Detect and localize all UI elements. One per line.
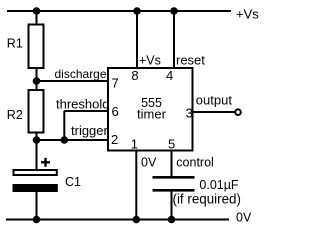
node junction bottom rail / C1 — [33, 216, 41, 224]
node junction top rail / pin 8 — [133, 7, 141, 15]
wire pin 4 to top rail — [173, 11, 175, 68]
svg-text:0V: 0V — [236, 210, 252, 224]
node discharge junction — [33, 77, 41, 85]
svg-text:C1: C1 — [65, 175, 81, 189]
capacitor C1 positive plate — [14, 170, 57, 175]
node junction bottom rail / pin 1 — [133, 216, 141, 224]
wire threshold branch vertical — [63, 111, 65, 140]
wire pin 5 to control capacitor — [171, 151, 173, 178]
op-amp / IC 555 timer U1 body — [108, 68, 193, 151]
capacitor C2 control bottom plate — [153, 189, 195, 192]
wire pin 8 to top rail — [136, 11, 138, 68]
svg-text:+Vs: +Vs — [139, 54, 161, 68]
wire trigger to pin 2 — [37, 139, 109, 141]
svg-text:R2: R2 — [7, 108, 23, 122]
node junction top rail / pin 4 — [170, 7, 178, 15]
resistor R2 — [29, 90, 44, 133]
svg-text:0.01µF: 0.01µF — [199, 178, 239, 192]
svg-text:timer: timer — [137, 106, 167, 121]
svg-text:4: 4 — [166, 68, 173, 83]
capacitor C2 control top plate — [153, 176, 195, 179]
wire discharge to pin 7 — [37, 80, 109, 82]
output terminal circle — [235, 109, 241, 115]
node trigger junction at R2 bottom — [33, 136, 41, 144]
svg-text:(if required): (if required) — [173, 192, 241, 207]
node junction bottom rail / control capacitor — [168, 216, 176, 224]
svg-text:2: 2 — [111, 132, 118, 147]
svg-text:5: 5 — [168, 136, 175, 151]
svg-text:threshold: threshold — [56, 97, 109, 112]
svg-text:R1: R1 — [7, 36, 23, 50]
node threshold branch junction — [61, 136, 69, 144]
svg-text:0V: 0V — [141, 156, 157, 170]
wire control capacitor to bottom rail — [171, 190, 173, 219]
svg-text:6: 6 — [112, 104, 119, 119]
svg-text:3: 3 — [186, 106, 193, 121]
svg-text:trigger: trigger — [71, 123, 109, 138]
wire 0V bottom supply rail — [6, 219, 229, 221]
svg-text:1: 1 — [131, 136, 138, 151]
svg-text:output: output — [196, 93, 233, 108]
svg-text:discharge: discharge — [55, 67, 107, 81]
wire top rail to R1 — [36, 11, 38, 25]
svg-text:+Vs: +Vs — [236, 7, 259, 22]
capacitor C1 polarity + sign — [41, 158, 50, 167]
wire pin 3 output — [193, 111, 235, 113]
svg-text:7: 7 — [112, 76, 119, 91]
svg-text:8: 8 — [131, 68, 138, 83]
svg-text:control: control — [176, 156, 214, 170]
wire R1 to R2 — [36, 68, 38, 90]
wire pin 1 to bottom rail — [135, 151, 137, 220]
wire R2 to C1 — [36, 133, 38, 171]
wire +Vs top supply rail — [7, 10, 231, 12]
capacitor C1 negative plate — [13, 185, 57, 192]
resistor R1 — [29, 25, 44, 69]
node junction top rail / R1 — [33, 7, 41, 15]
wire C1 to bottom rail — [36, 192, 38, 220]
svg-text:reset: reset — [176, 53, 205, 68]
wire threshold to pin 6 — [64, 110, 108, 112]
